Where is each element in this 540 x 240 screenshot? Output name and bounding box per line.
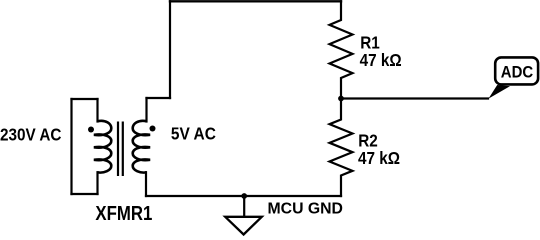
ground MCU GND symbol bbox=[225, 217, 262, 235]
svg-text:XFMR1: XFMR1 bbox=[95, 201, 152, 224]
wire left drop from top rail bbox=[169, 1, 171, 98]
resistor R1 bbox=[330, 1, 353, 98]
polarity dot primary bbox=[88, 127, 94, 133]
junction dot node MCU GND bbox=[241, 193, 247, 199]
svg-text:5V AC: 5V AC bbox=[171, 123, 216, 143]
wire jog to transformer secondary top bbox=[147, 97, 171, 99]
net flag ADC bbox=[489, 57, 539, 98]
core line left bbox=[117, 122, 119, 177]
secondary winding bbox=[133, 121, 150, 173]
svg-text:MCU GND: MCU GND bbox=[268, 200, 343, 217]
svg-text:ADC: ADC bbox=[501, 64, 534, 82]
core line right bbox=[122, 122, 124, 177]
wire primary top stub bbox=[72, 98, 98, 100]
resistor R2 bbox=[330, 99, 353, 197]
svg-text:230V AC: 230V AC bbox=[0, 124, 61, 144]
wire secondary bottom feed bbox=[145, 172, 147, 196]
wire 230V source left vertical bbox=[70, 99, 72, 194]
svg-text:47 kΩ: 47 kΩ bbox=[360, 50, 402, 70]
svg-text:47 kΩ: 47 kΩ bbox=[358, 148, 400, 168]
wire primary top feed bbox=[96, 99, 98, 122]
wire top rail bbox=[170, 0, 341, 2]
wire primary bottom stub bbox=[72, 193, 98, 195]
wire primary bottom feed bbox=[96, 172, 98, 194]
primary winding bbox=[94, 121, 111, 173]
polarity dot secondary bbox=[150, 126, 156, 132]
junction dot node ADC tap bbox=[338, 96, 344, 102]
wire ground stub bbox=[243, 196, 245, 216]
wire bottom rail bbox=[146, 195, 341, 197]
wire junction to ADC bbox=[341, 97, 488, 99]
transformer XFMR1 bbox=[88, 121, 156, 176]
wire secondary top feed bbox=[145, 98, 147, 122]
